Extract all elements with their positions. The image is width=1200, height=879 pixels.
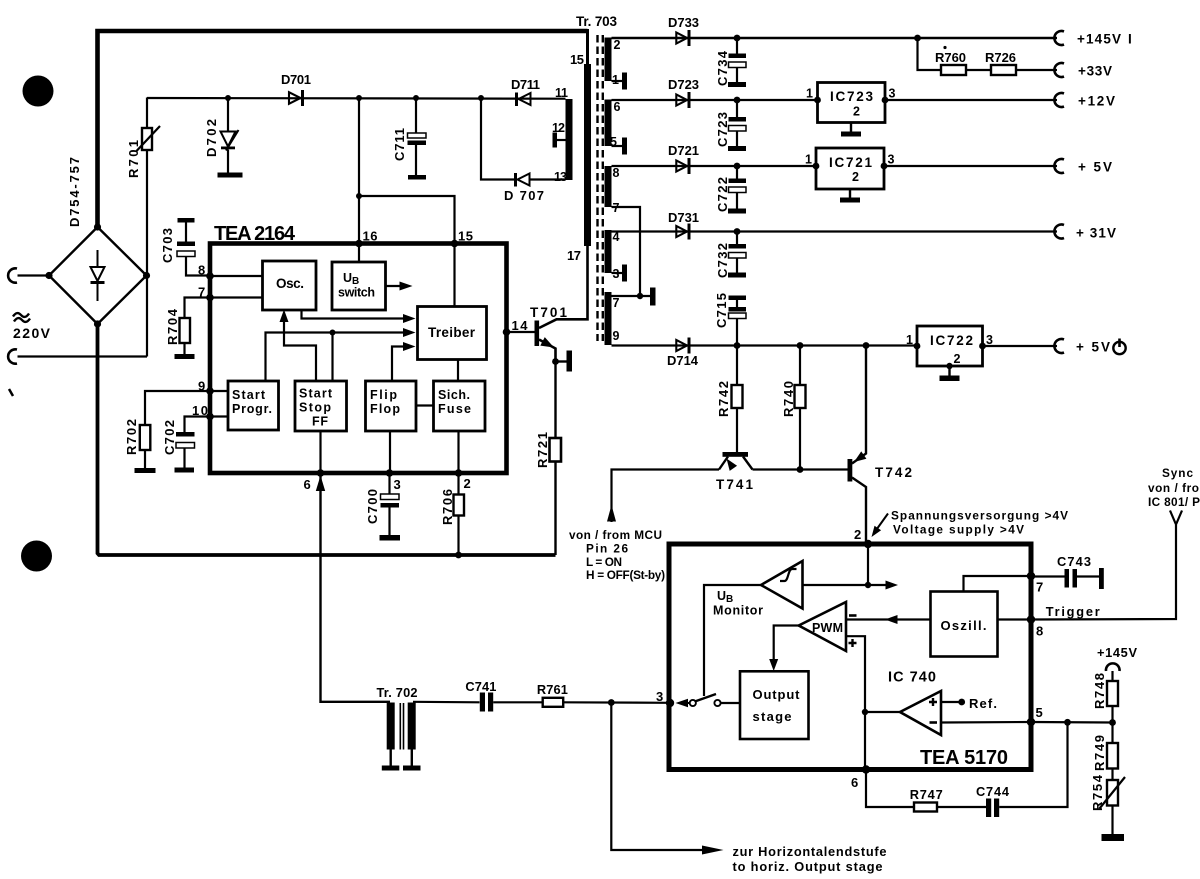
label C711 [392, 128, 407, 161]
label Tr.703 [576, 14, 617, 29]
transistor T741 [719, 452, 753, 471]
resistor R721 [550, 362, 562, 556]
svg-text:R748: R748 [1092, 673, 1107, 709]
Start Stop FF box [295, 381, 347, 431]
wire pin5 to divider [1031, 721, 1113, 724]
svg-text:PWM: PWM [812, 621, 843, 635]
label TEA5170 pin8 [1036, 624, 1043, 639]
label D733 [668, 15, 699, 30]
node pin 7 join [637, 293, 643, 299]
capacitor C732 [728, 232, 746, 278]
label pin 6b [304, 477, 311, 492]
node TEA5170 pin5 [1027, 718, 1035, 726]
label C722 [715, 177, 730, 212]
resistor R726 [991, 65, 1016, 75]
node IC722 pin3 [979, 343, 986, 350]
label T741 [716, 477, 753, 492]
node IC721 pin3 [881, 163, 888, 170]
PWM minus sign [849, 614, 857, 617]
terminal +5V [1054, 159, 1064, 173]
diode D733 [676, 30, 690, 46]
label IC722 pin3 [986, 333, 993, 347]
svg-text:Ref.: Ref. [969, 696, 997, 711]
svg-text:Pin 26: Pin 26 [586, 542, 628, 556]
node IC723 pin1 [814, 97, 821, 104]
wire trigger [1031, 525, 1176, 620]
bridge rectifier D754-757 [45, 223, 150, 327]
svg-text:3: 3 [888, 153, 895, 167]
svg-text:14: 14 [512, 318, 529, 333]
wire +31V rail [612, 230, 1058, 232]
transformer core dashed lines [598, 35, 603, 341]
node pin 2 [455, 469, 463, 477]
label D754-757 [67, 157, 82, 227]
label TEA5170 pin3 [656, 689, 663, 704]
svg-text:1: 1 [612, 73, 619, 87]
svg-text:I: I [1128, 32, 1132, 47]
wire pin16 riser [358, 98, 360, 244]
label TEA 2164 [214, 223, 296, 245]
svg-text:13: 13 [554, 170, 567, 184]
label TEA 5170 [920, 747, 1008, 769]
wire C744 to pin5 line [999, 722, 1067, 807]
svg-text:IC722: IC722 [930, 333, 973, 348]
svg-text:Start: Start [232, 388, 266, 402]
capacitor C744 [986, 799, 999, 818]
wire pin6 to feedback [866, 770, 914, 808]
svg-text:H = OFF(St-by): H = OFF(St-by) [586, 568, 665, 582]
svg-text:+12V: +12V [1078, 94, 1115, 109]
label 220V [13, 325, 51, 341]
svg-text:1: 1 [805, 153, 812, 167]
svg-text:IC 801/ P: IC 801/ P [1148, 495, 1200, 509]
wire AC lower to R701 node [18, 355, 148, 357]
svg-text:Monitor: Monitor [713, 604, 763, 618]
node pin 7 [206, 294, 214, 302]
wire snubber line from R701 to winding pin 11 [147, 97, 566, 100]
svg-text:stage: stage [753, 709, 792, 724]
label R702 [124, 419, 139, 455]
terminal +145V [1054, 31, 1064, 45]
node input 2 branch [330, 330, 336, 336]
aux winding 11-13 [566, 99, 573, 180]
label C744 [976, 784, 1010, 799]
wire +145V rail [612, 37, 1058, 39]
pin 12 tap [553, 133, 566, 148]
stray dot above R760 [943, 46, 946, 49]
node pin 6 [317, 469, 325, 477]
secondary winding 8-7 [605, 166, 612, 207]
TEA2164 box [210, 244, 507, 474]
label IC722 pin1 [906, 333, 913, 347]
label pin 16 [363, 229, 378, 244]
wire Treiber to Sich Fuse [457, 360, 459, 382]
UB switch output arrow [386, 282, 413, 291]
node C744 branch [1064, 719, 1071, 726]
wire pin 6 drop [321, 473, 391, 702]
svg-text:6: 6 [851, 775, 858, 790]
svg-text:Flop: Flop [370, 402, 400, 416]
primary winding 15-17 [584, 64, 591, 246]
node T742 collector top [863, 342, 870, 349]
capacitor C723 [728, 100, 746, 151]
svg-text:220V: 220V [13, 325, 51, 341]
label R747 [910, 787, 943, 802]
node R740 bottom [797, 466, 804, 473]
wire pin3 external [563, 701, 669, 704]
wire Start Progr to Treiber input 2 [266, 328, 416, 381]
svg-text:D 707: D 707 [504, 188, 544, 203]
resistor R747 [914, 803, 937, 812]
node pin2 internal [865, 582, 871, 588]
TEA5170 box [669, 544, 1031, 770]
svg-text:R740: R740 [781, 381, 796, 417]
stray mark left margin [9, 389, 13, 396]
svg-text:16: 16 [363, 229, 378, 244]
svg-text:C743: C743 [1057, 554, 1091, 569]
wire R747 to C744 [937, 806, 986, 808]
label AC squiggle [13, 313, 30, 322]
wire Sich Fuse to pin 2 [457, 431, 459, 473]
resistor R742 [732, 346, 743, 453]
terminal +12V [1054, 93, 1064, 107]
svg-text:to horiz. Output stage: to horiz. Output stage [733, 859, 883, 874]
wire pin2 internal [867, 544, 869, 585]
label Spannungsversorgung [891, 509, 1068, 537]
wire Ref input [941, 701, 962, 703]
svg-text:von / fro: von / fro [1148, 481, 1199, 495]
resistor R754 (variable) [1100, 777, 1126, 841]
label pin 12 [552, 121, 565, 135]
punch hole bottom [21, 541, 52, 572]
transformer Tr702 [382, 703, 421, 771]
node TEA5170 pin7 [1027, 572, 1035, 580]
IC740 minus sign [930, 721, 938, 724]
node TEA5170 pin3 [666, 699, 674, 707]
capacitor C722 [728, 166, 746, 214]
label IC723 pin2 [853, 105, 860, 119]
svg-text:Progr.: Progr. [232, 402, 272, 416]
regulator IC722 [917, 326, 983, 366]
svg-text:R726: R726 [985, 50, 1016, 65]
label pin 8 [613, 166, 620, 180]
label TEA5170 pin6 [851, 775, 858, 790]
svg-text:D711: D711 [511, 77, 540, 92]
svg-text:2: 2 [614, 38, 621, 52]
wire pin 7 to Osc [210, 296, 263, 298]
label pin 2b [464, 476, 471, 491]
node R706 return [455, 552, 462, 559]
resistor R702 [135, 391, 211, 473]
resistor R748 [1107, 671, 1118, 723]
label R749 [1092, 735, 1107, 771]
UB monitor comparator [761, 561, 803, 609]
svg-text:C734: C734 [715, 50, 730, 86]
resistor R701 (variable) [137, 98, 161, 357]
label IC721 pin1 [805, 153, 812, 167]
wire UB monitor to switch [704, 585, 761, 696]
svg-text:Tr. 702: Tr. 702 [377, 685, 418, 700]
wire pin 10 to Start Progr [210, 415, 228, 417]
svg-text:C741: C741 [465, 679, 496, 694]
ground tick T701 emitter [556, 351, 573, 372]
label R748 [1092, 673, 1107, 709]
svg-text:+ 31V: + 31V [1076, 226, 1116, 241]
svg-text:5: 5 [610, 135, 617, 149]
label Tr.702 [377, 685, 418, 700]
svg-text:Sync: Sync [1162, 466, 1193, 480]
label C741 [465, 679, 496, 694]
pin 3 stub [612, 265, 628, 282]
node comparator output [862, 709, 868, 715]
svg-text:15: 15 [458, 229, 473, 244]
svg-text:IC721: IC721 [829, 155, 872, 170]
terminal +31V [1054, 225, 1064, 239]
label C732 [715, 243, 730, 278]
svg-text:8: 8 [613, 166, 620, 180]
wire AC upper to bridge [18, 274, 50, 276]
resistor R740 [795, 346, 806, 470]
svg-text:Oszill.: Oszill. [941, 618, 987, 633]
label C700 [365, 489, 380, 524]
svg-text:D714: D714 [667, 353, 699, 368]
svg-text:Osc.: Osc. [276, 276, 304, 291]
svg-text:R702: R702 [124, 419, 139, 455]
label R740 [781, 381, 796, 417]
node D702 top [225, 95, 231, 101]
wire PWM output to output stage [769, 626, 799, 672]
label pin 1 [612, 73, 619, 87]
label D711 [511, 77, 540, 92]
svg-text:Output: Output [753, 687, 801, 702]
Flip Flop box [366, 381, 417, 431]
node IC722 pin1 [914, 343, 921, 350]
label R760 [935, 50, 966, 65]
svg-text:2: 2 [954, 352, 961, 366]
wire Tr702 to C741 [413, 701, 480, 704]
ground IC723 [841, 123, 861, 137]
node pin 10 [206, 413, 214, 421]
transistor T701 [535, 246, 588, 362]
svg-text:R760: R760 [935, 50, 966, 65]
label Sync from IC801 [1148, 466, 1200, 509]
node horizontal drive branch [608, 699, 615, 706]
wire Osc to Treiber input 1 [302, 310, 416, 323]
secondary winding 6-5 [605, 100, 612, 147]
label IC722 pin2 [954, 352, 961, 366]
capacitor C715 [729, 296, 747, 346]
svg-text:R721: R721 [535, 432, 550, 468]
wire D707 branch [481, 98, 566, 180]
label D702 [204, 119, 219, 157]
label pin 10 [192, 403, 208, 418]
regulator IC721 [816, 148, 884, 189]
label pin 17 [567, 248, 581, 263]
label R742 [716, 381, 731, 417]
node C732 [734, 228, 741, 235]
label R704 [165, 308, 180, 345]
label D731 [668, 210, 699, 225]
label TEA5170 pin2 [854, 527, 861, 542]
svg-text:D701: D701 [281, 72, 311, 87]
secondary winding 2-1 [605, 38, 612, 82]
svg-text:3: 3 [889, 87, 896, 101]
svg-text:3: 3 [613, 267, 620, 281]
svg-text:7: 7 [1036, 580, 1043, 595]
wire +5V rail [612, 165, 1058, 167]
diode D714 [676, 338, 690, 354]
label pin 9b [198, 379, 205, 394]
svg-text:C732: C732 [715, 243, 730, 278]
svg-text:8: 8 [1036, 624, 1043, 639]
node C715-R742 [734, 342, 741, 349]
svg-text:D723: D723 [668, 77, 699, 92]
wire oszill right to pin8 [998, 618, 1032, 620]
capacitor C734 [728, 38, 746, 87]
pointer to pin 2 [868, 514, 888, 540]
label +33V [1078, 64, 1112, 79]
PWM plus sign [849, 639, 857, 647]
svg-text:R742: R742 [716, 381, 731, 417]
diode D701 [289, 90, 304, 106]
svg-text:6: 6 [614, 100, 621, 114]
svg-text:FF: FF [312, 415, 328, 429]
resistor R760 [941, 65, 966, 75]
resistor R704 [175, 298, 211, 360]
terminal +5V standby [1054, 339, 1064, 353]
svg-text:switch: switch [338, 286, 375, 300]
label pin 7 [613, 201, 620, 215]
ground IC722 [940, 363, 960, 381]
capacitor C702 [175, 417, 211, 473]
node C723 [734, 97, 741, 104]
capacitor C711 [408, 98, 427, 180]
svg-text:+33V: +33V [1078, 64, 1112, 79]
node T701 emitter [552, 358, 559, 365]
capacitor C741 [480, 693, 493, 712]
svg-text:C711: C711 [392, 128, 407, 161]
pin 5 stub [612, 138, 628, 155]
node pin 14 [503, 328, 511, 336]
svg-text:Trigger: Trigger [1046, 604, 1100, 619]
svg-text:TEA 2164: TEA 2164 [214, 223, 296, 245]
switch at pin 3 [676, 694, 741, 707]
wire pin15 riser [359, 196, 455, 244]
secondary winding 4-3 [605, 230, 612, 273]
node TEA5170 pin6 [862, 765, 870, 773]
node pin 8 [206, 272, 214, 280]
svg-text:Fuse: Fuse [438, 402, 471, 416]
label UB Monitor [713, 589, 763, 618]
wire pin 8 to Osc [210, 275, 263, 277]
wire pin16 to UB switch [358, 245, 360, 262]
wire UB monitor output [803, 581, 899, 590]
svg-text:3: 3 [986, 333, 993, 347]
label pin 7 lower [613, 296, 620, 310]
node pin15 branch [356, 193, 362, 199]
pin 1 stub [612, 73, 628, 90]
node pin 3 [386, 469, 394, 477]
resistor R706 [454, 473, 465, 555]
label +145V source [1097, 645, 1137, 660]
svg-text:Treiber: Treiber [428, 325, 476, 340]
standby power symbol [1113, 339, 1125, 355]
label D721 [668, 143, 699, 158]
label +31V [1076, 226, 1116, 241]
label TEA5170 pin5 [1036, 705, 1043, 720]
label IC723 pin3 [889, 87, 896, 101]
label pin 8b [198, 263, 205, 278]
label TEA5170 pin7 [1036, 580, 1043, 595]
label D714 [667, 353, 699, 368]
node C722 [734, 163, 741, 170]
wire Start Stop FF to pin 6 [319, 431, 321, 473]
svg-text:2: 2 [464, 476, 471, 491]
svg-text:IC723: IC723 [830, 89, 873, 104]
svg-text:Sich.: Sich. [438, 388, 470, 402]
terminal +145V source [1106, 663, 1120, 671]
wire pin 7 lower to tick [612, 295, 651, 297]
svg-text:C744: C744 [976, 784, 1010, 799]
node +33V branch [914, 35, 921, 42]
label R761 [537, 682, 568, 697]
label IC721 pin2 [852, 170, 859, 184]
label pin 15 [570, 52, 584, 67]
svg-text:Stop: Stop [299, 401, 331, 415]
svg-text:2: 2 [854, 527, 861, 542]
ground tick pin 7 [650, 288, 656, 306]
node R740 top [797, 342, 804, 349]
svg-text:+ 5V: + 5V [1078, 160, 1112, 175]
wire +12V rail [612, 99, 1058, 101]
diode D711 [515, 93, 531, 107]
svg-text:C703: C703 [160, 228, 175, 263]
svg-text:IC 740: IC 740 [888, 670, 936, 686]
label C702 [162, 420, 177, 455]
label zur Horizontalendstufe [733, 844, 887, 874]
label R701 [126, 140, 141, 178]
label C703 [160, 228, 175, 263]
punch hole top [23, 76, 54, 107]
wire PWM plus input [846, 636, 865, 769]
node pin 9 [206, 387, 214, 395]
svg-text:C702: C702 [162, 420, 177, 455]
terminal +33V [1054, 63, 1064, 77]
svg-text:C700: C700 [365, 489, 380, 524]
PWM comparator [799, 602, 846, 651]
svg-text:D731: D731 [668, 210, 699, 225]
svg-text:17: 17 [567, 248, 581, 263]
capacitor C703 [177, 218, 210, 276]
svg-text:D733: D733 [668, 15, 699, 30]
transistor T742 [848, 346, 867, 545]
svg-text:7: 7 [613, 296, 620, 310]
label pin 15b [458, 229, 473, 244]
wire branch to Start Stop FF [331, 333, 333, 382]
IC740 plus sign [929, 698, 937, 706]
wire bridge minus rail to bottom return [98, 323, 556, 555]
regulator IC723 [818, 83, 886, 123]
capacitor C743 [1031, 568, 1104, 589]
svg-text:C722: C722 [715, 177, 730, 212]
label T742 [875, 465, 912, 480]
osc box [263, 261, 317, 310]
svg-text:Flip: Flip [370, 388, 397, 402]
pin 6 entry arrow [316, 476, 325, 492]
svg-text:3: 3 [394, 477, 401, 492]
node pin 15 [451, 240, 459, 248]
svg-text:von / from MCU: von / from MCU [569, 528, 662, 542]
